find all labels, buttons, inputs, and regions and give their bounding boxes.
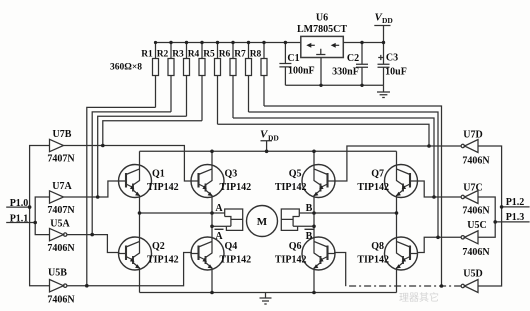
power VDD bridge rail: [260, 129, 279, 152]
svg-text:R4: R4: [188, 50, 200, 60]
svg-text:U5A: U5A: [50, 219, 70, 230]
inverter U5D 7406N: [461, 269, 483, 293]
svg-text:Q2: Q2: [152, 241, 165, 252]
svg-text:7407N: 7407N: [47, 205, 75, 216]
transistor Q8 TIP142 (mirrored): [357, 237, 417, 270]
wire: Q6 emitter: [313, 269, 315, 293]
wire: Q5 collector: [313, 151, 315, 165]
wire: Q1 collector: [139, 151, 141, 165]
svg-text:TIP142: TIP142: [147, 255, 179, 266]
svg-text:U6: U6: [316, 13, 328, 24]
svg-text:7406N: 7406N: [47, 295, 75, 306]
resistor R2: [157, 43, 174, 112]
capacitor C1 100nF: [279, 43, 314, 86]
resistor R8: [250, 43, 267, 107]
transistor Q4 TIP142: [191, 237, 251, 270]
wire: Q3 collector: [211, 151, 213, 165]
node label A-bar (lower): [215, 229, 224, 242]
svg-text:A: A: [215, 231, 223, 242]
svg-text:R8: R8: [250, 50, 262, 60]
wire: bottom ground rail: [140, 292, 397, 294]
regulator U6 LM7805CT: [297, 13, 347, 58]
svg-text:理器其它: 理器其它: [399, 291, 439, 304]
wire: bridge VDD rail: [140, 150, 397, 152]
svg-text:TIP142: TIP142: [147, 182, 179, 193]
wire: U5D output row to Q6 base (partly faded): [346, 285, 461, 287]
wire: R7 to U5C output net: [249, 112, 439, 237]
transistor Q5 TIP142 (mirrored): [275, 165, 335, 198]
wire: U7C output row to Q7 base: [417, 181, 461, 197]
svg-text:TIP142: TIP142: [220, 182, 252, 193]
transistor Q1 TIP142: [119, 165, 179, 198]
wire: R2 to U5A output net: [92, 112, 171, 235]
wire: right mid row from node B: [314, 212, 397, 214]
svg-text:10uF: 10uF: [385, 67, 407, 78]
svg-text:R6: R6: [219, 50, 231, 60]
svg-text:Q7: Q7: [371, 169, 384, 180]
wire: U7A output row to Q1 base: [64, 181, 120, 197]
svg-text:R7: R7: [234, 50, 246, 60]
inverter U7C 7406N: [461, 183, 490, 217]
resistor R6: [219, 43, 236, 119]
svg-text:B: B: [306, 231, 313, 242]
svg-text:7406N: 7406N: [462, 247, 490, 258]
svg-text:Q3: Q3: [225, 169, 238, 180]
node P1.2: [502, 197, 530, 208]
wire: U6 output rail: [343, 42, 383, 44]
wire: U5B output row to Q4 base: [67, 253, 192, 286]
wire: P1.2 bus to U7D and U5D inputs: [478, 146, 502, 286]
svg-text:7406N: 7406N: [462, 206, 490, 217]
svg-text:LM7805CT: LM7805CT: [297, 24, 347, 35]
capacitor C2 330nF: [332, 43, 368, 86]
watermark (faint): [399, 291, 439, 304]
resistor R4: [188, 43, 205, 121]
svg-text:A: A: [215, 203, 223, 214]
svg-text:Q5: Q5: [289, 169, 302, 180]
wire: node B column (Q5 emitter / Q6 collector): [313, 197, 315, 239]
wire: Q1 emitter / Q2 collector column: [139, 197, 141, 239]
svg-text:Q6: Q6: [289, 241, 302, 252]
transistor Q6 TIP142 (mirrored): [275, 237, 335, 270]
wire: P1.0 bus to U7B and U5B inputs: [30, 146, 50, 286]
power VDD top: [374, 12, 393, 65]
node P1.0: [6, 198, 29, 209]
connector B (right motor terminal): [281, 209, 314, 230]
inverter U5C 7406N: [461, 220, 490, 258]
ground symbol (regulator): [377, 85, 390, 97]
svg-text:Q8: Q8: [371, 241, 384, 252]
svg-text:C2: C2: [347, 53, 359, 64]
svg-text:U7B: U7B: [53, 129, 72, 140]
wire: Q7 collector: [396, 151, 398, 165]
wire: Q2 emitter: [139, 269, 141, 293]
wire: U7D output row to Q5 base: [334, 146, 461, 181]
buffer U7B 7407N: [47, 129, 75, 165]
wire: Q8 emitter: [396, 269, 398, 293]
svg-text:330nF: 330nF: [332, 67, 359, 78]
node label B-bar (lower): [305, 229, 314, 242]
svg-text:U7D: U7D: [463, 130, 482, 141]
wire: U6 ground pin: [320, 57, 322, 85]
transistor Q7 TIP142 (mirrored): [357, 165, 417, 198]
svg-text:U5B: U5B: [48, 268, 67, 279]
inverter U5B 7406N: [47, 268, 75, 306]
svg-text:M: M: [257, 216, 268, 228]
wire: P1.3 bus to U7C and U5C inputs: [478, 197, 495, 237]
svg-text:Q1: Q1: [152, 169, 165, 180]
buffer U7A 7407N: [47, 181, 75, 216]
svg-text:TIP142: TIP142: [220, 255, 252, 266]
inverter U7D 7406N: [461, 130, 490, 167]
wire: pull-up input rail: [156, 42, 301, 44]
svg-text:U5D: U5D: [463, 269, 482, 280]
wire: Q7 emitter / Q8 collector column: [396, 197, 398, 239]
svg-text:C3: C3: [386, 52, 398, 63]
wire: U7B output row to Q3 base: [64, 146, 193, 182]
svg-text:DD: DD: [382, 16, 393, 25]
capacitor C3 10uF polarized: [378, 52, 407, 85]
resistor R3: [172, 43, 189, 117]
wire: node A column (Q3 emitter / Q4 collector): [211, 197, 213, 239]
wire: P1.1 bus to U7A and U5A inputs: [35, 197, 49, 235]
svg-text:TIP142: TIP142: [275, 255, 307, 266]
transistor Q2 TIP142: [119, 237, 179, 270]
wire: R1 to U5B output net: [87, 107, 156, 285]
node P1.3: [495, 212, 529, 223]
resistor R7: [234, 43, 251, 113]
wire: U5C output row to Q8 base: [417, 237, 461, 252]
svg-text:7407N: 7407N: [47, 154, 75, 165]
wire: R5 to U7D output net: [218, 124, 430, 146]
svg-text:U7C: U7C: [463, 183, 482, 194]
wire: R6 to U7C output net: [233, 118, 434, 197]
ground symbol (bridge): [260, 293, 272, 305]
svg-text:TIP142: TIP142: [357, 182, 389, 193]
svg-text:R5: R5: [203, 50, 215, 60]
wire: Q4 emitter: [211, 269, 213, 293]
transistor Q3 TIP142: [191, 165, 251, 198]
resistor R5: [203, 43, 220, 125]
svg-text:100nF: 100nF: [288, 66, 315, 77]
svg-text:Q4: Q4: [225, 241, 238, 252]
wire: R8 to U5D output net: [264, 106, 442, 286]
wire: left mid row to node A: [140, 212, 213, 214]
svg-text:7406N: 7406N: [47, 243, 75, 254]
svg-text:U5C: U5C: [467, 220, 486, 231]
node P1.1: [6, 214, 35, 225]
wire: regulator ground rail: [285, 84, 383, 86]
svg-text:U7A: U7A: [52, 181, 72, 192]
svg-text:B: B: [306, 203, 313, 214]
svg-text:C1: C1: [287, 53, 299, 64]
wire: R4 to U7B output net: [103, 121, 202, 146]
motor M: [247, 206, 278, 237]
svg-text:360Ω×8: 360Ω×8: [110, 63, 142, 73]
wire: R3 to U7A output net: [98, 116, 187, 197]
svg-text:R1: R1: [141, 50, 153, 60]
inverter U5A 7406N: [47, 219, 75, 255]
wire: U5A output row to Q2 base: [67, 235, 120, 253]
svg-text:TIP142: TIP142: [275, 182, 307, 193]
svg-text:R2: R2: [157, 50, 169, 60]
svg-text:TIP142: TIP142: [357, 255, 389, 266]
svg-text:R3: R3: [172, 50, 184, 60]
svg-text:7406N: 7406N: [462, 156, 490, 167]
connector A (left motor terminal): [212, 209, 243, 230]
resistor R1: [141, 43, 158, 108]
